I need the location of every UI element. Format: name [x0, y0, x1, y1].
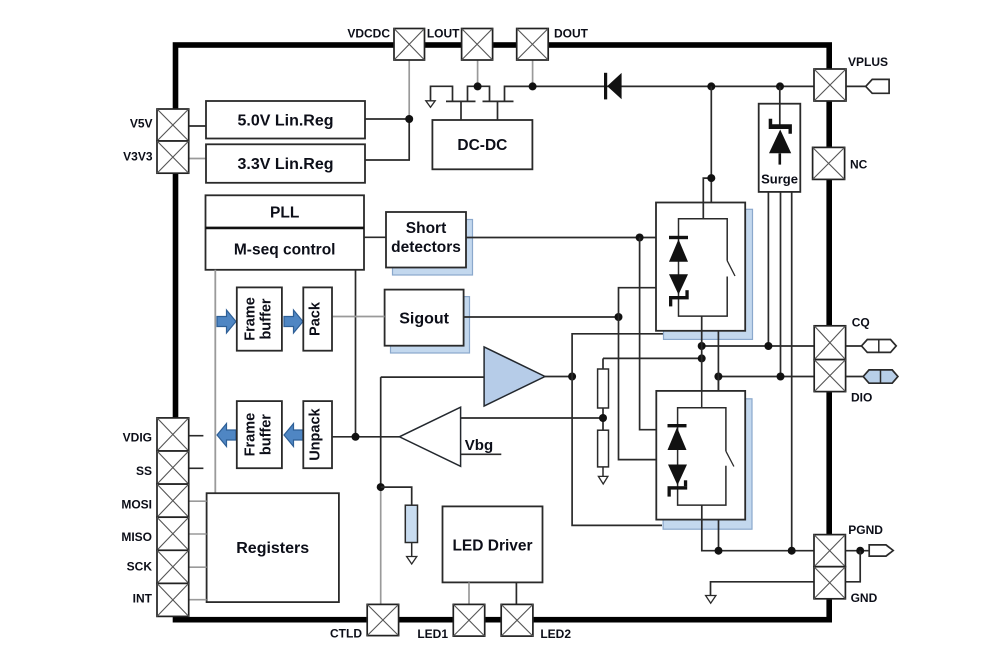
- wire: Sigout output: [464, 316, 619, 318]
- wire: Vbg input stub: [461, 453, 502, 455]
- connector plug PGND: [869, 545, 893, 556]
- wire: LED Driver to LED2: [515, 582, 517, 604]
- node: rail junction to surge: [776, 82, 784, 90]
- svg-text:5.0V Lin.Reg: 5.0V Lin.Reg: [237, 113, 333, 130]
- pin SCK: [157, 550, 189, 583]
- pin CQ: [814, 326, 845, 360]
- wire: driver column B upper: [717, 331, 719, 391]
- wire: Pack to Sigout: [332, 316, 385, 318]
- wire: DIO rail: [718, 376, 814, 378]
- block: Frame buffer 2: [237, 401, 282, 468]
- node: feed branch junction: [707, 174, 715, 182]
- svg-text:Unpack: Unpack: [308, 407, 324, 460]
- wire: resistor to ground: [411, 543, 413, 557]
- svg-text:detectors: detectors: [391, 239, 461, 256]
- svg-text:SCK: SCK: [127, 560, 153, 574]
- wire: driver A top feed: [710, 86, 712, 202]
- pin VPLUS: [814, 69, 846, 101]
- comparator U2: [399, 407, 460, 466]
- wire: SCK to Registers: [189, 566, 207, 568]
- svg-text:3.3V Lin.Reg: 3.3V Lin.Reg: [237, 156, 333, 173]
- svg-text:PGND: PGND: [848, 523, 883, 537]
- svg-text:LOUT: LOUT: [427, 27, 460, 41]
- svg-text:V5V: V5V: [130, 117, 153, 131]
- transistor Q2 gate lead to DC-DC: [497, 101, 499, 120]
- pin MISO: [157, 517, 189, 550]
- block: PLL and M-seq control: [206, 195, 365, 269]
- node: PGND column junction: [715, 547, 723, 555]
- pin SS: [157, 451, 189, 484]
- node: CQ surge junction: [764, 342, 772, 350]
- wire: driver column A: [701, 316, 703, 408]
- wire: M-seq tap to comparator output: [355, 270, 357, 437]
- switch arm driver B: [726, 451, 734, 466]
- wire: VDCDC pin lead: [408, 60, 410, 119]
- chip boundary: [176, 45, 830, 620]
- wire: driver B top feeds crossing box: [701, 391, 703, 408]
- resistor R2 divider top: [602, 358, 604, 369]
- block arrow: bus to frame buffer 1: [217, 310, 236, 333]
- wire: MISO to Registers: [189, 533, 207, 535]
- svg-text:M-seq control: M-seq control: [234, 242, 336, 259]
- driver block B box: [656, 391, 745, 520]
- pin V5V: [157, 109, 189, 141]
- driver A inner cell: [679, 219, 728, 316]
- node: rail junction to driver A: [707, 82, 715, 90]
- wire: CTLD vertical: [380, 377, 382, 487]
- block: Unpack: [303, 401, 332, 468]
- svg-text:PLL: PLL: [270, 205, 299, 222]
- svg-text:DIO: DIO: [851, 391, 872, 405]
- svg-text:LED2: LED2: [540, 627, 571, 641]
- wire: MOSI to Registers: [189, 500, 207, 502]
- ground below R1: [407, 557, 417, 565]
- svg-text:MISO: MISO: [121, 530, 152, 544]
- wire: divider to ground: [602, 467, 604, 477]
- wire: INT to Registers: [189, 599, 207, 601]
- node: LOUT junction: [474, 82, 482, 90]
- zener DB2: [668, 465, 687, 486]
- wire: comparator sense input: [461, 417, 603, 419]
- wire: sigout branch to driver B: [619, 317, 657, 460]
- svg-text:GND: GND: [851, 591, 878, 605]
- wire: LOUT pin lead: [477, 60, 479, 86]
- svg-text:CTLD: CTLD: [330, 627, 362, 641]
- block: Short detectors: [386, 212, 473, 275]
- pin CTLD: [367, 604, 398, 635]
- wire: Q2 drain staircase to VPLUS rail: [505, 86, 815, 101]
- wire: driver B column B lower: [718, 520, 720, 551]
- pin LED1: [453, 604, 484, 636]
- svg-text:VPLUS: VPLUS: [848, 55, 888, 69]
- zener DA2: [669, 274, 688, 294]
- node: divider tap: [599, 414, 607, 422]
- wire: amp input: [381, 376, 484, 378]
- pin DOUT: [517, 29, 549, 61]
- wire: branch to internal resistor: [381, 487, 412, 505]
- pin V3V3: [157, 141, 189, 173]
- pin PGND: [814, 535, 845, 567]
- pin DIO: [814, 360, 845, 392]
- svg-text:LED1: LED1: [417, 627, 448, 641]
- wire: PGND external lead: [845, 550, 869, 552]
- svg-text:Sigout: Sigout: [399, 311, 449, 328]
- node: short detector branch: [636, 234, 644, 242]
- wire: comparator output to Unpack: [332, 436, 399, 438]
- diode DB1: [668, 424, 687, 427]
- zener D2 surge: [769, 119, 792, 134]
- wire: feed branch to inner cell: [703, 178, 711, 219]
- wire: V5V to 5.0V Lin.Reg: [189, 125, 206, 127]
- wire: V3V3 to 3.3V Lin.Reg: [189, 158, 206, 160]
- svg-text:VDCDC: VDCDC: [347, 27, 390, 41]
- wire: DOUT pin lead: [532, 60, 534, 86]
- wire: CQ external lead: [846, 345, 862, 347]
- block arrow: Unpack to frame buffer 2: [284, 424, 303, 447]
- wire: surge leg to PGND: [791, 192, 793, 551]
- svg-text:buffer: buffer: [259, 298, 275, 339]
- pin GND: [814, 567, 845, 599]
- pin MOSI: [157, 484, 189, 517]
- svg-text:INT: INT: [133, 591, 153, 605]
- ground below divider: [598, 476, 608, 484]
- block arrow: frame buffer 1 to Pack: [284, 310, 303, 333]
- svg-text:Vbg: Vbg: [465, 437, 493, 454]
- wire: surge leg to DIO: [780, 192, 782, 377]
- transistor Q2 channel bar: [483, 100, 514, 102]
- svg-text:Short: Short: [406, 220, 446, 237]
- wire: vertical joining regulator outputs: [408, 119, 410, 160]
- node: sigout branch: [615, 313, 623, 321]
- node: PGND external junction: [856, 547, 864, 555]
- switch arm driver A: [727, 261, 735, 276]
- driver B inner cell: [678, 408, 726, 505]
- wire: DIO external lead: [846, 376, 864, 378]
- transistor Q1 gate lead to DC-DC: [460, 101, 462, 120]
- wire between divider resistors: [602, 408, 604, 430]
- driver block A shadow: [664, 209, 753, 339]
- block arrow: frame buffer 2 to bus: [217, 424, 236, 447]
- svg-text:CQ: CQ: [852, 316, 870, 330]
- wire: driver B bottom to PGND rail: [702, 505, 814, 551]
- node: CQ column junction: [698, 342, 706, 350]
- svg-text:SS: SS: [136, 464, 152, 478]
- diode DA1: [669, 236, 688, 239]
- connector plug CQ: [862, 340, 897, 353]
- wire: 5.0V Lin.Reg output to VDCDC node: [365, 118, 409, 120]
- node: VDCDC junction: [405, 115, 413, 123]
- node: PGND surge junction: [788, 547, 796, 555]
- pin NC: [813, 147, 845, 179]
- pin VDCDC: [394, 29, 425, 61]
- wire: VPLUS external lead: [846, 85, 866, 87]
- block: 3.3V Lin.Reg: [206, 144, 365, 183]
- wire: branch down to driver B: [640, 238, 657, 430]
- ground symbol at GND: [706, 596, 716, 604]
- pin LED2: [501, 604, 533, 636]
- block: DC-DC: [432, 120, 532, 169]
- wire: amp output: [545, 376, 572, 378]
- wire: GND internal: [711, 582, 815, 596]
- wire: feedback lower branch: [572, 377, 662, 526]
- connector plug DIO: [863, 370, 898, 383]
- svg-text:MOSI: MOSI: [121, 498, 152, 512]
- wire: ground staircase to FET Q1: [431, 86, 453, 100]
- wire: surge leg to CQ: [767, 192, 769, 346]
- svg-text:NC: NC: [850, 158, 868, 172]
- block: Pack: [303, 287, 332, 350]
- wire: VDIG stub: [189, 435, 204, 437]
- wire: feedback upper branch: [572, 334, 663, 377]
- wire: PGND to GND loop: [845, 551, 860, 582]
- driver block A box: [656, 203, 745, 331]
- svg-text:VDIG: VDIG: [123, 431, 152, 445]
- block: Frame buffer 1: [237, 287, 282, 350]
- wire: sigout branch to driver A: [619, 288, 657, 317]
- svg-text:Surge: Surge: [761, 172, 798, 187]
- svg-text:Pack: Pack: [308, 301, 324, 336]
- diode D1 on VPLUS rail: [604, 73, 607, 100]
- wire: divider tap rail: [603, 357, 702, 359]
- block: 5.0V Lin.Reg: [206, 101, 365, 139]
- transistor Q1 channel bar: [446, 100, 476, 102]
- svg-text:DOUT: DOUT: [554, 27, 589, 41]
- block: Surge: [759, 104, 801, 192]
- node: DIO column junction: [714, 373, 722, 381]
- svg-text:Registers: Registers: [236, 540, 309, 557]
- svg-text:Frame: Frame: [243, 297, 259, 341]
- node: CTLD branch: [377, 483, 385, 491]
- wire: LED Driver to LED1: [468, 582, 470, 604]
- wire: 3.3V Lin.Reg output: [365, 159, 410, 161]
- svg-text:Frame: Frame: [243, 413, 259, 457]
- svg-text:V3V3: V3V3: [123, 150, 153, 164]
- block: Sigout: [385, 290, 470, 353]
- wire: CQ rail: [702, 345, 815, 347]
- wire: surge top lead: [779, 86, 781, 126]
- wire: Short detectors to driver A: [466, 237, 656, 239]
- op-amp U1 line driver: [484, 347, 545, 406]
- svg-text:buffer: buffer: [259, 414, 275, 455]
- pin INT: [157, 583, 189, 616]
- wire: digital bus M-seq to Registers: [214, 270, 216, 493]
- resistor R3 divider bottom: [598, 430, 609, 467]
- svg-text:LED Driver: LED Driver: [452, 538, 532, 555]
- wire: SS stub: [189, 467, 204, 469]
- ground at DC-DC input: [426, 101, 435, 108]
- node: DIO surge junction: [777, 373, 785, 381]
- pin LOUT: [462, 29, 493, 61]
- connector plug VPLUS: [866, 79, 889, 93]
- node: M-seq tap junction: [352, 433, 360, 441]
- wire: LOUT bridge between Q1 Q2: [468, 86, 490, 101]
- svg-text:DC-DC: DC-DC: [457, 137, 507, 154]
- resistor R1 internal pull: [405, 505, 417, 542]
- wire: M-seq to Short detectors: [364, 236, 386, 238]
- driver block B shadow: [663, 399, 752, 529]
- node: amp output junction: [568, 373, 576, 381]
- block: Registers: [207, 493, 339, 602]
- block: LED Driver: [443, 506, 543, 582]
- pin VDIG: [157, 418, 189, 451]
- node: DOUT junction: [529, 82, 537, 90]
